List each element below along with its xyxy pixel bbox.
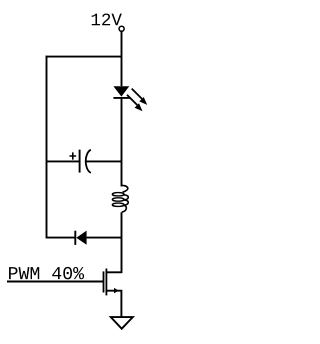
wire left vertical	[46, 56, 48, 239]
wire gate	[7, 281, 104, 283]
node 12V label	[92, 13, 122, 25]
wire inductor to diode junction	[121, 212, 123, 273]
capacitor C1	[80, 150, 91, 173]
terminal 12V	[119, 26, 124, 31]
transistor Q1 gate bar	[103, 271, 105, 292]
LED arrow 1	[132, 89, 148, 105]
transistor Q1 source arrow	[114, 288, 119, 293]
diode D2	[75, 231, 86, 245]
wire source	[106, 291, 121, 317]
wire capacitor row left	[47, 160, 80, 162]
wire diode row left	[47, 237, 76, 239]
inductor L1	[112, 185, 128, 212]
LED D1	[113, 86, 129, 98]
wire diode row right	[87, 237, 122, 239]
wire terminal to LED anode	[121, 31, 123, 86]
ground	[111, 317, 133, 329]
node PWM label	[9, 267, 84, 279]
transistor Q1 channel bar	[105, 269, 107, 296]
capacitor C1 plus sign	[70, 152, 77, 159]
wire LED cathode down	[121, 98, 123, 187]
wire drain	[106, 271, 121, 273]
wire capacitor row right	[86, 160, 122, 162]
LED arrow 2	[127, 95, 143, 111]
wire top horizontal	[46, 56, 122, 58]
